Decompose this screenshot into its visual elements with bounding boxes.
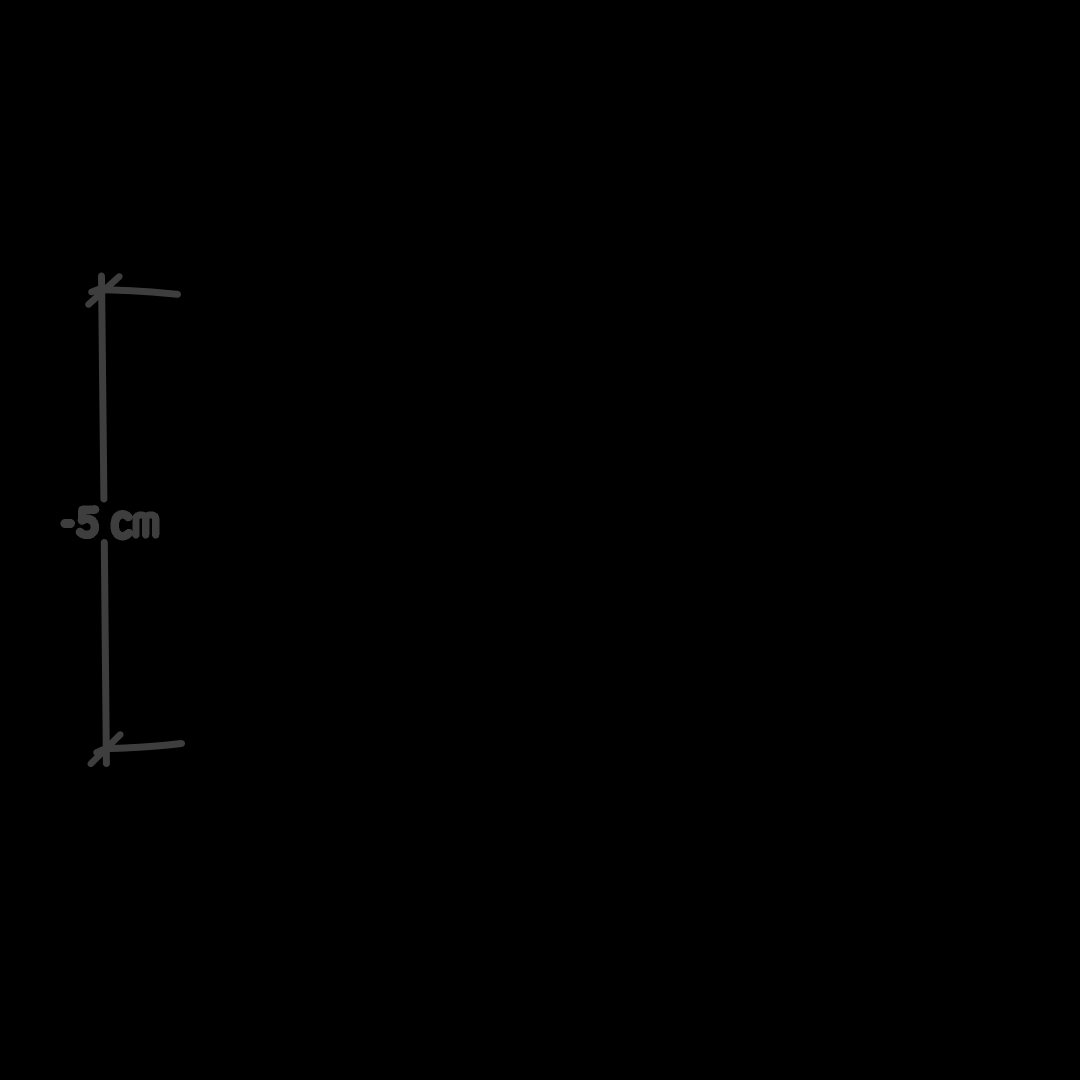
bottom tick mark dash — [97, 750, 104, 753]
letter c — [115, 514, 129, 536]
bottom extension line — [111, 744, 182, 749]
letter m — [136, 515, 156, 535]
dimension line vertical upper segment — [102, 276, 104, 499]
top tick mark diagonal — [89, 277, 120, 305]
digit 5 — [80, 510, 95, 535]
label -5 cm — [65, 510, 156, 537]
top extension line — [104, 290, 178, 295]
bottom tick mark diagonal — [91, 735, 121, 764]
minus sign — [65, 519, 71, 528]
top tick mark dash — [92, 289, 101, 293]
dimension line vertical lower segment — [104, 543, 106, 764]
